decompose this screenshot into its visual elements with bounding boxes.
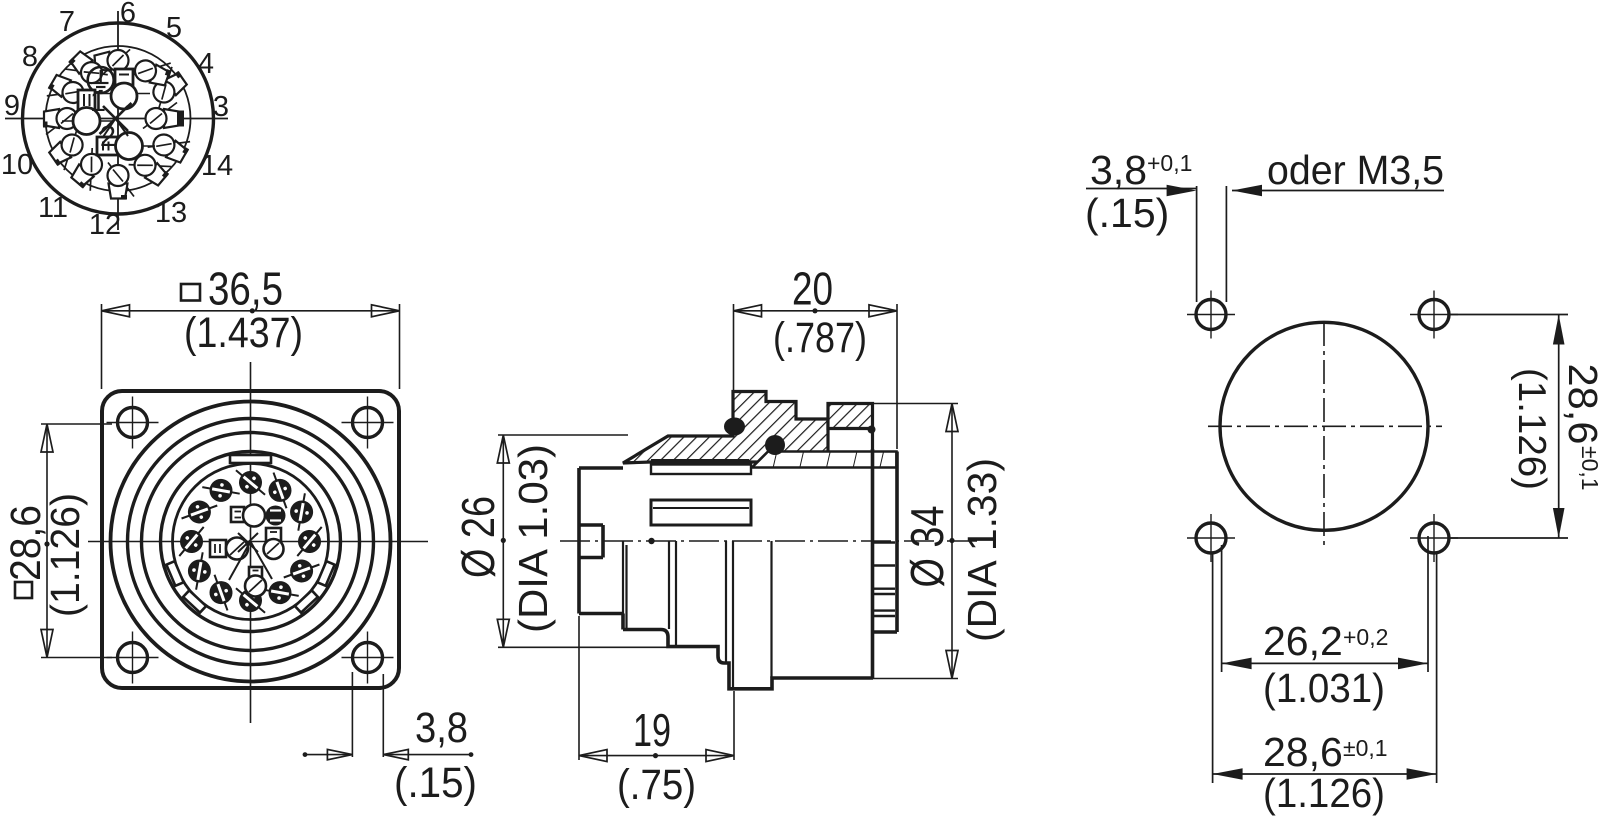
- front view insert circle: [173, 464, 329, 620]
- dimension 28,6 left: [41, 424, 112, 658]
- front contact 7: [170, 520, 212, 564]
- mounting hole bottom-right: [353, 643, 383, 673]
- front inner contact a: [231, 505, 265, 527]
- front view vertical centerline: [250, 362, 252, 723]
- svg-text:11: 11: [38, 192, 68, 224]
- panel centerline horizontal: [1208, 425, 1442, 427]
- svg-text:26,2: 26,2: [1263, 618, 1343, 664]
- earth pin: [88, 67, 114, 93]
- dimension 28,6 bottom: [1213, 553, 1437, 783]
- svg-text:oder M3,5: oder M3,5: [1267, 147, 1444, 193]
- svg-text:7: 7: [59, 6, 75, 38]
- keyway at 337 deg: [317, 561, 334, 586]
- front contact 4: [229, 461, 273, 503]
- keyway at 227 deg: [183, 590, 206, 612]
- side view hatched collar: [623, 392, 828, 464]
- pin layout pin circle: [46, 46, 191, 191]
- washer: [651, 465, 751, 475]
- svg-text:(1.126): (1.126): [1263, 770, 1385, 816]
- front contact 5: [200, 476, 241, 505]
- pin 2 contact: [97, 133, 155, 160]
- front view shell circle: [142, 433, 360, 651]
- svg-text:3: 3: [213, 91, 229, 123]
- pin 8 contact: [44, 71, 89, 112]
- front contact 2: [287, 491, 316, 532]
- pin layout horizontal centerline: [5, 118, 228, 120]
- front inner contact e: [245, 567, 266, 597]
- front contact 1: [288, 520, 330, 564]
- svg-text:±0,1: ±0,1: [1577, 446, 1600, 491]
- front inner contact c: [210, 538, 248, 560]
- polarization key top: [230, 455, 271, 463]
- pin 7 contact: [63, 48, 108, 93]
- pin layout outer circle: [23, 23, 214, 214]
- label oder M3,5: [1232, 190, 1444, 192]
- svg-text:2: 2: [100, 121, 116, 153]
- svg-text:28,6: 28,6: [1560, 364, 1600, 445]
- front contact 12: [280, 554, 324, 589]
- svg-text:20: 20: [792, 263, 833, 315]
- dimension 20 top: [734, 304, 898, 449]
- panel centerline vertical: [1323, 322, 1325, 548]
- pin layout view: [5, 11, 228, 230]
- pin 1 contact: [62, 90, 112, 135]
- panel hole circle: [1220, 322, 1428, 530]
- svg-text:(1.126): (1.126): [1510, 368, 1553, 490]
- dimension dia 34 right: [871, 404, 958, 679]
- pin 12 contact: [108, 163, 135, 200]
- panel drill hole bottom-left: [1196, 523, 1226, 553]
- pin 9 contact: [43, 108, 80, 135]
- svg-text:(.787): (.787): [773, 314, 867, 362]
- center cross mark: [100, 103, 132, 137]
- front inner contact d: [264, 528, 284, 559]
- dimension 3,8 bottom right: [305, 672, 471, 757]
- dimension 19 bottom: [579, 616, 734, 760]
- front contact 6: [178, 495, 222, 530]
- svg-text:1: 1: [90, 86, 106, 118]
- front contact 10: [229, 579, 273, 621]
- svg-text:±0,1: ±0,1: [1343, 735, 1388, 761]
- svg-text:8: 8: [22, 41, 38, 73]
- front view insert rim circle: [161, 452, 341, 632]
- pin 6 contact: [93, 49, 132, 79]
- dimension 36,5 top: [102, 304, 400, 389]
- svg-text:12: 12: [89, 209, 121, 241]
- dimension 3,8 drill: [1086, 186, 1226, 302]
- o-ring 2: [765, 435, 785, 455]
- svg-text:(.15): (.15): [1085, 190, 1169, 236]
- mounting hole top-left: [118, 408, 148, 438]
- inner pin upper (cup up): [100, 69, 150, 109]
- mounting hole bottom-left: [118, 643, 148, 673]
- svg-text:10: 10: [1, 149, 33, 181]
- nut block lower edge: [871, 429, 874, 452]
- svg-text:(1.437): (1.437): [184, 309, 303, 357]
- keyway at 313 deg: [295, 590, 318, 612]
- svg-text:5: 5: [166, 12, 182, 44]
- svg-text:3,8: 3,8: [415, 704, 468, 752]
- front contact 8: [185, 550, 214, 591]
- svg-text:(.15): (.15): [394, 759, 477, 807]
- side view centerline: [560, 540, 980, 542]
- front view flange boss circle: [111, 402, 391, 682]
- front view horizontal centerline: [88, 541, 428, 543]
- side view flange band: [752, 452, 897, 468]
- keyway at 203 deg: [166, 561, 183, 586]
- front view square flange: [102, 391, 399, 688]
- svg-text:(1.126): (1.126): [42, 493, 88, 617]
- pin 4 contact: [144, 65, 190, 108]
- front contact 11: [259, 578, 300, 607]
- svg-text:6: 6: [120, 0, 136, 29]
- side view body outline: [578, 449, 897, 689]
- svg-text:Ø 26: Ø 26: [452, 496, 504, 578]
- svg-text:19: 19: [633, 704, 671, 756]
- pin 13 contact: [128, 145, 173, 189]
- svg-text:(.75): (.75): [617, 761, 696, 809]
- front contact 9: [204, 571, 239, 615]
- front view: [88, 362, 428, 723]
- svg-text:(DIA 1.03): (DIA 1.03): [510, 444, 556, 633]
- svg-text:Ø 34: Ø 34: [901, 506, 953, 588]
- dimension 26,2: [1222, 536, 1428, 672]
- svg-text:3,8: 3,8: [1090, 147, 1147, 193]
- retaining dot: [868, 426, 876, 434]
- pin 5 contact: [130, 51, 174, 89]
- svg-text:36,5: 36,5: [208, 263, 283, 315]
- front contact 3: [263, 469, 298, 513]
- panel drill hole bottom-right: [1419, 523, 1449, 553]
- svg-text:13: 13: [155, 197, 187, 229]
- pin 10 contact: [46, 129, 92, 172]
- panel drill hole top-right: [1419, 300, 1449, 330]
- front center vee: [229, 533, 272, 580]
- dimension 28,6 right vertical: [1449, 315, 1568, 539]
- svg-text:+0,2: +0,2: [1343, 624, 1388, 650]
- svg-text:(DIA 1.33): (DIA 1.33): [959, 458, 1005, 642]
- front view thread circle: [128, 419, 374, 665]
- pin 14 contact: [147, 125, 192, 166]
- pin 3 contact: [143, 103, 184, 130]
- mounting hole top-right: [353, 408, 383, 438]
- cable slot: [651, 500, 751, 525]
- pin layout vertical centerline: [117, 11, 119, 230]
- o-ring 1: [724, 418, 745, 436]
- svg-text:4: 4: [198, 48, 214, 80]
- panel drill hole top-left: [1196, 300, 1226, 330]
- side view inner edges: [623, 541, 772, 688]
- solder ribs: [874, 543, 895, 617]
- dimension dia 26 left: [498, 435, 700, 647]
- front inner contact b (solid): [266, 506, 286, 526]
- side view hatched nut block: [828, 404, 873, 429]
- svg-text:9: 9: [4, 90, 20, 122]
- svg-text:28,6: 28,6: [1263, 729, 1343, 775]
- svg-text:+0,1: +0,1: [1147, 150, 1192, 176]
- svg-text:(1.031): (1.031): [1263, 665, 1385, 711]
- gasket bar: [651, 459, 749, 465]
- svg-text:14: 14: [201, 150, 233, 182]
- pin 11 contact: [68, 148, 112, 193]
